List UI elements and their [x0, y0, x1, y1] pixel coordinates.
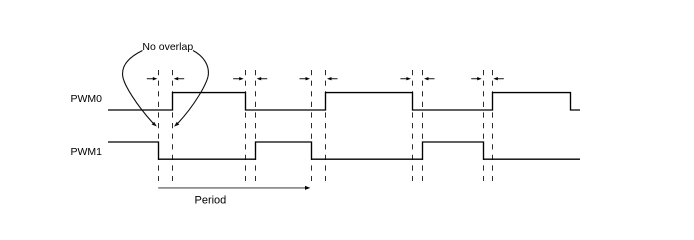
gap arrow pair2 left [233, 77, 244, 80]
gap arrow pair1 right [174, 77, 185, 80]
gap arrow pair5 right [493, 77, 504, 80]
dashed line pair 1 right [172, 70, 174, 181]
svg-text:PWM0: PWM0 [71, 93, 103, 105]
dashed line pair 4 right [422, 70, 424, 181]
gap arrow pair3 left [300, 77, 311, 80]
dashed line pair 5 left [483, 70, 485, 181]
gap arrow pair5 left [471, 77, 482, 80]
waveform PWM0 [108, 93, 580, 110]
svg-text:Period: Period [195, 195, 227, 207]
dashed line pair 3 right [325, 70, 327, 181]
gap arrow pair2 right [257, 77, 268, 80]
period arrow [158, 186, 310, 190]
dashed line pair 2 right [255, 70, 257, 181]
svg-text:PWM1: PWM1 [71, 146, 103, 158]
dashed line pair 1 left [158, 70, 160, 181]
gap arrow pair4 right [424, 77, 435, 80]
svg-text:No overlap: No overlap [142, 41, 193, 53]
no-overlap callout curve right [174, 51, 208, 127]
dashed line pair 4 left [412, 70, 414, 181]
no-overlap callout curve left [123, 51, 157, 127]
dashed line pair 3 left [311, 70, 313, 181]
gap arrow pair4 left [400, 77, 411, 80]
dashed line pair 5 right [492, 70, 494, 181]
dashed line pair 2 left [245, 70, 247, 181]
gap arrow pair1 left [147, 77, 158, 80]
waveform PWM1 [108, 142, 580, 159]
gap arrow pair3 right [327, 77, 338, 80]
